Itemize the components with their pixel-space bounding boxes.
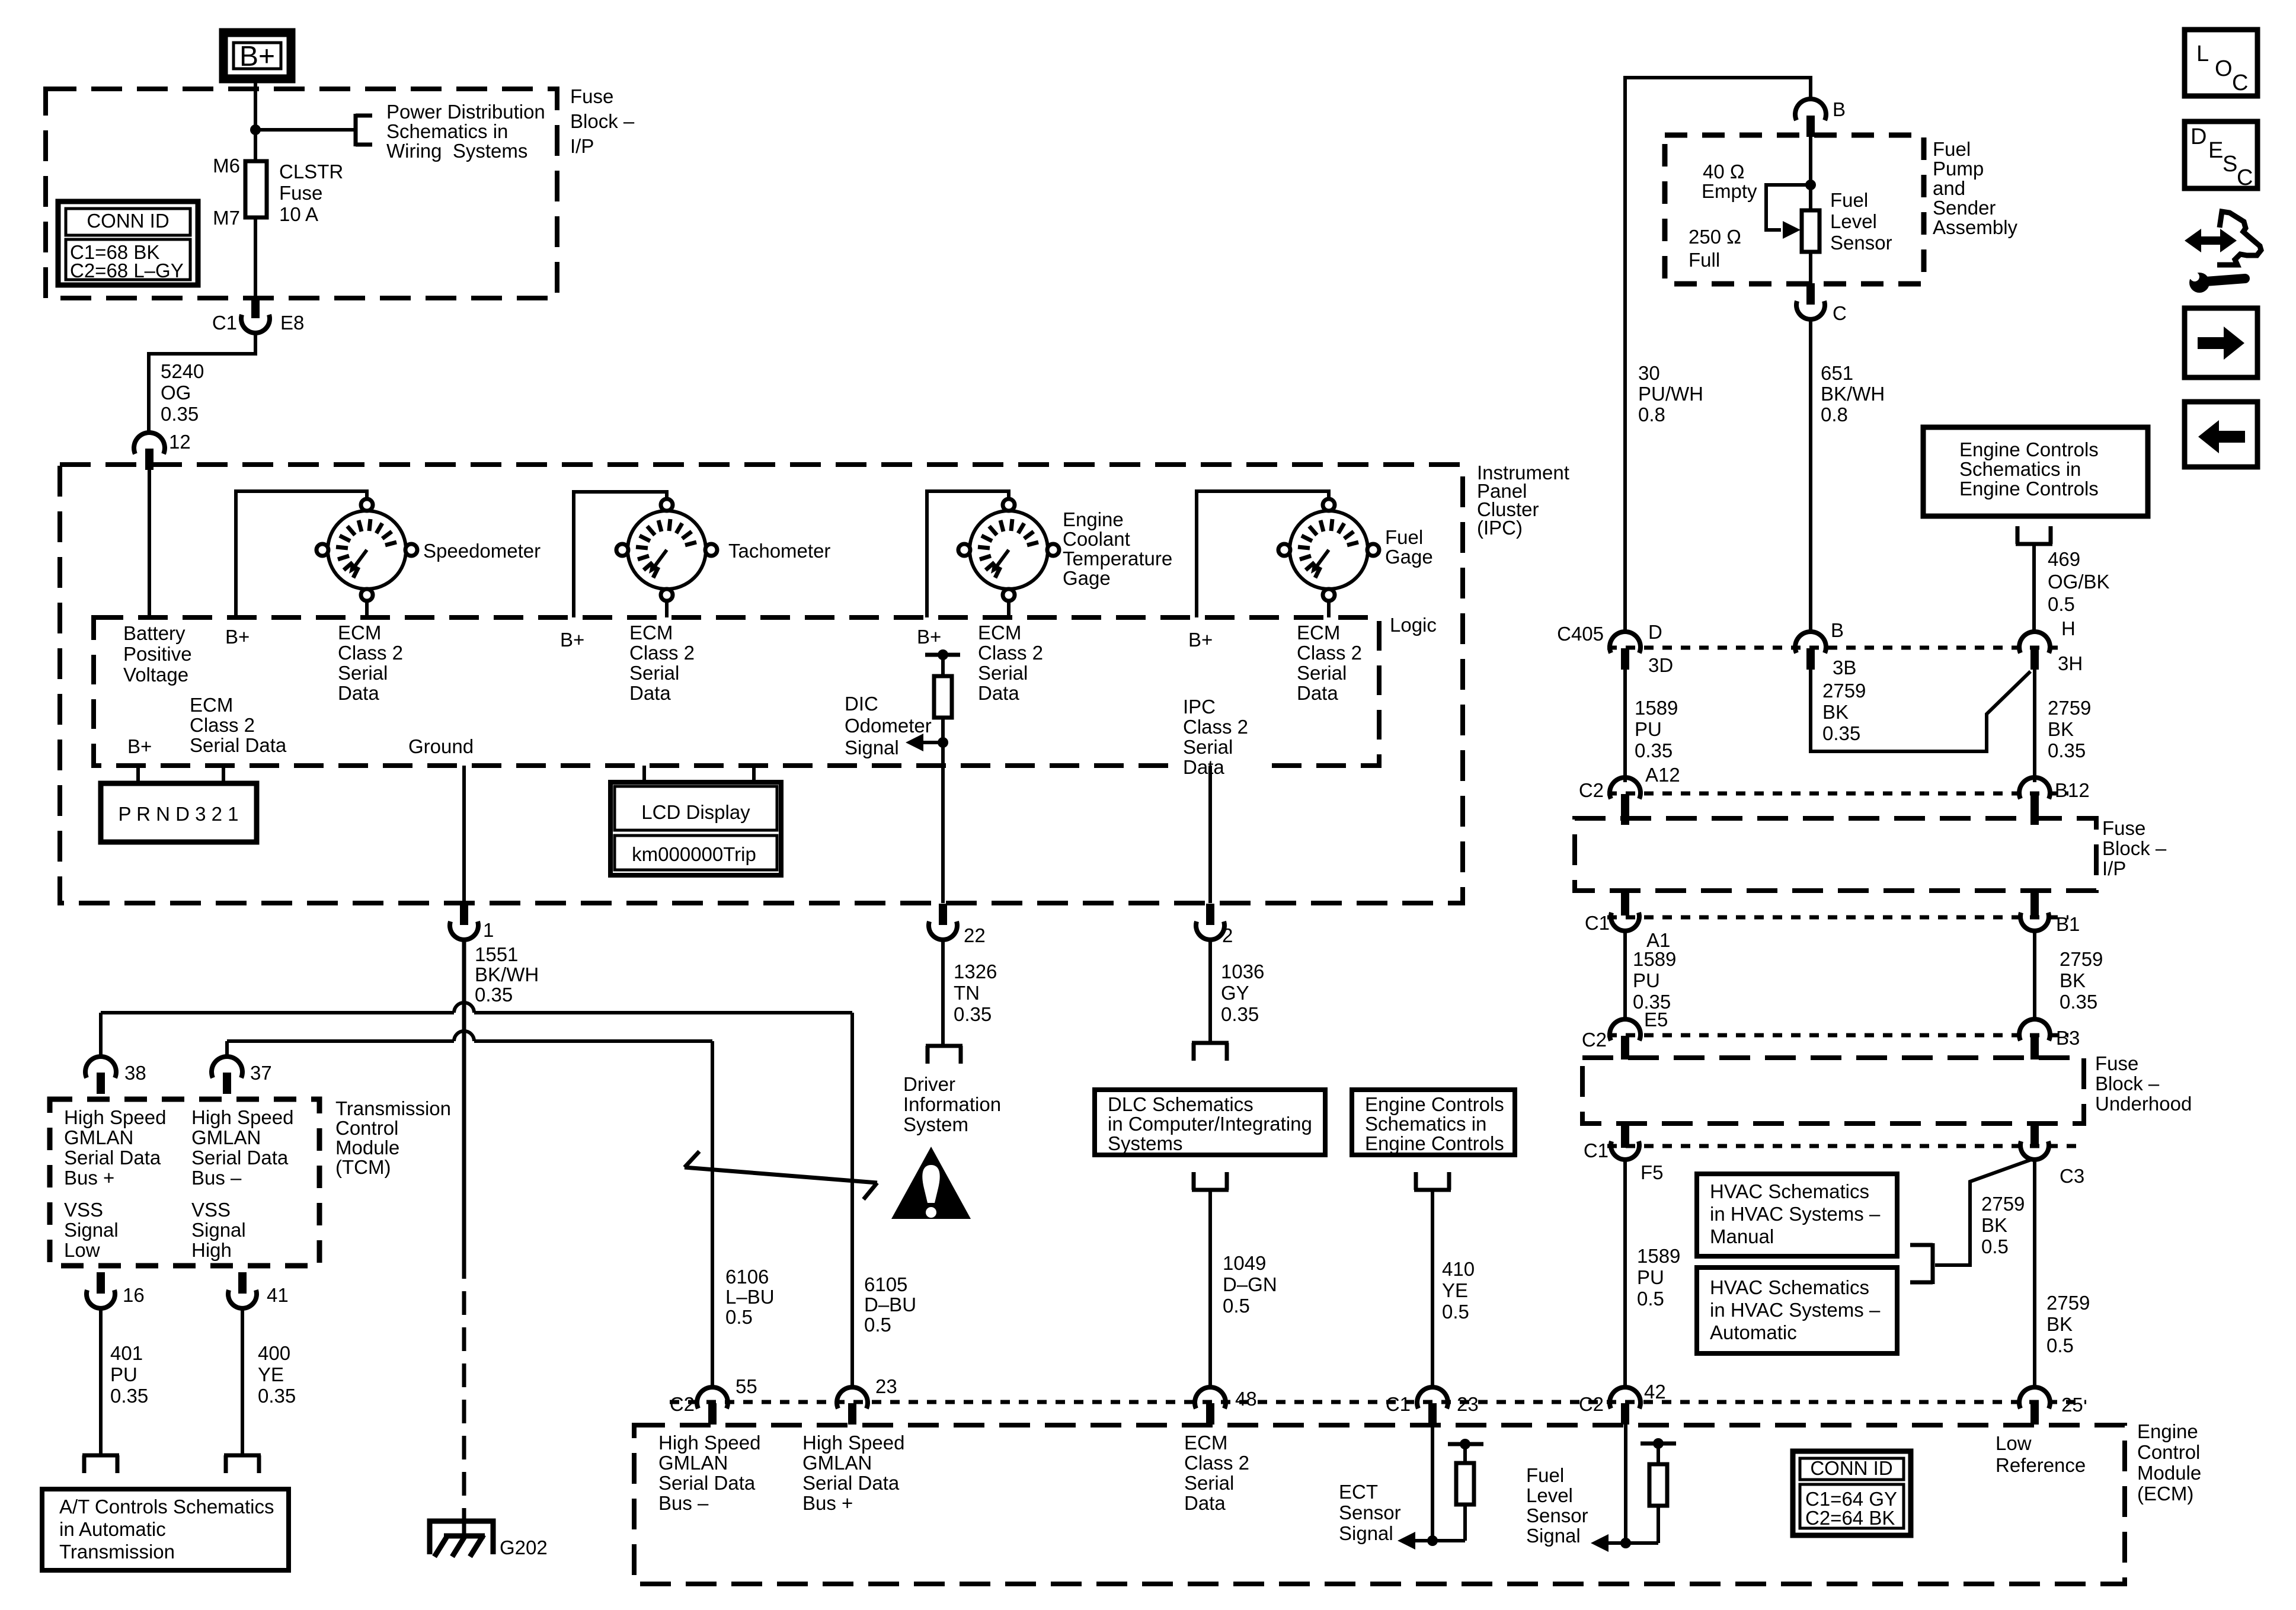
svg-text:Wiring Systems: Wiring Systems <box>386 140 527 162</box>
svg-text:ECM: ECM <box>190 694 233 716</box>
svg-text:Sensor: Sensor <box>1339 1502 1401 1523</box>
label ECM class2 tachometer <box>629 622 695 704</box>
label fuse block IP right <box>2102 817 2167 879</box>
svg-text:2759: 2759 <box>1981 1193 2025 1215</box>
svg-text:400: 400 <box>258 1342 290 1364</box>
pointer line <box>685 1151 877 1199</box>
svg-text:10 A: 10 A <box>279 203 318 225</box>
label B+ coolant <box>917 626 941 648</box>
svg-text:41: 41 <box>267 1284 289 1306</box>
label DIC odometer signal <box>845 693 932 758</box>
svg-text:VSS: VSS <box>64 1199 103 1221</box>
svg-text:30: 30 <box>1638 362 1660 384</box>
svg-text:651: 651 <box>1821 362 1853 384</box>
connector 25 <box>2019 1387 2083 1425</box>
svg-text:B12: B12 <box>2055 779 2090 801</box>
svg-text:OG: OG <box>161 382 191 404</box>
svg-text:2759: 2759 <box>2060 948 2103 970</box>
svg-text:C: C <box>2237 165 2253 190</box>
label TCM <box>335 1097 451 1178</box>
svg-text:Fuel: Fuel <box>1385 526 1423 548</box>
svg-text:Level: Level <box>1526 1484 1573 1506</box>
wire 30 PU/WH top <box>1625 78 1811 633</box>
svg-text:VSS: VSS <box>191 1199 231 1221</box>
svg-text:Temperature: Temperature <box>1063 548 1172 569</box>
svg-text:6106: 6106 <box>725 1266 769 1288</box>
svg-text:PU: PU <box>110 1363 137 1385</box>
svg-text:Serial Data: Serial Data <box>190 734 287 756</box>
fuse CLSTR 10A <box>213 155 343 229</box>
label B+ prnd <box>127 735 152 757</box>
svg-text:Engine Controls: Engine Controls <box>1365 1132 1504 1154</box>
wire 6106 L-BU <box>711 1041 714 1388</box>
svg-text:0.5: 0.5 <box>1637 1288 1664 1310</box>
ground G202 <box>430 1517 548 1558</box>
connector row A12 B12 <box>1579 764 2090 801</box>
connector C2 E5 <box>1610 1019 1641 1060</box>
connector row C405 <box>1557 617 2076 648</box>
svg-text:Low: Low <box>64 1239 100 1261</box>
svg-text:Serial Data: Serial Data <box>64 1147 161 1169</box>
connector C405 H <box>2019 632 2083 674</box>
icon arrow left box <box>2185 402 2257 467</box>
svg-text:CONN ID: CONN ID <box>1810 1457 1892 1479</box>
wire 2759 BK B1 to B3 <box>2033 932 2036 1020</box>
svg-text:1589: 1589 <box>1637 1245 1680 1267</box>
svg-text:0.35: 0.35 <box>1221 1003 1259 1025</box>
label low reference <box>1996 1432 2086 1476</box>
svg-text:BK/WH: BK/WH <box>475 964 539 985</box>
svg-text:40 Ω: 40 Ω <box>1703 161 1745 183</box>
svg-text:High Speed: High Speed <box>191 1106 293 1128</box>
label wire 2759 BK 035 mid <box>1822 680 1866 744</box>
PRND321 box <box>101 783 257 842</box>
wire tachometer data <box>665 599 669 617</box>
wire B+ feed speedometer <box>236 491 367 617</box>
connector row C1 A1 B1 <box>1585 912 2080 951</box>
svg-text:IPC: IPC <box>1183 696 1216 718</box>
fuel level internal resistor <box>1626 1438 1676 1543</box>
svg-text:OG/BK: OG/BK <box>2048 571 2110 593</box>
svg-text:Automatic: Automatic <box>1710 1321 1797 1343</box>
connector 41 <box>228 1272 289 1308</box>
fuel pump dashed box <box>1665 135 1924 284</box>
fuel level sensor resistor <box>1802 210 1819 252</box>
svg-text:GMLAN: GMLAN <box>191 1126 261 1148</box>
label wire 410 YE <box>1442 1258 1475 1323</box>
svg-text:Full: Full <box>1689 249 1720 271</box>
connector 37 <box>212 1057 272 1094</box>
connector 22 wire <box>941 901 945 905</box>
svg-text:Engine: Engine <box>1063 508 1124 530</box>
connector B3 <box>2019 1019 2050 1060</box>
bracket power distribution <box>356 114 372 146</box>
svg-text:O: O <box>2215 56 2233 81</box>
connector B fuel pump <box>1795 98 1846 137</box>
svg-text:ECM: ECM <box>338 622 381 644</box>
svg-text:Data: Data <box>1184 1492 1226 1514</box>
svg-text:in Automatic: in Automatic <box>59 1518 166 1540</box>
svg-text:Signal: Signal <box>1339 1522 1393 1544</box>
label wire 2759 BK 035 b <box>2060 948 2103 1013</box>
svg-text:PU: PU <box>1637 1266 1664 1288</box>
label engine control module <box>2137 1420 2201 1505</box>
wire speedometer data <box>365 599 369 617</box>
label wire 651 BK/WH <box>1821 362 1885 425</box>
label tachometer <box>728 540 830 562</box>
ground wire dashed section <box>462 1255 466 1517</box>
svg-text:Data: Data <box>1183 756 1224 778</box>
wire 2759 BK HVAC branch <box>1935 1159 2033 1265</box>
label fuse block I/P <box>570 85 635 157</box>
label high speed gmlan bus plus <box>64 1106 166 1189</box>
svg-text:Speedometer: Speedometer <box>423 540 541 562</box>
svg-text:0.5: 0.5 <box>1981 1235 2009 1257</box>
connector row F5 C3 <box>1584 1140 2084 1187</box>
svg-text:0.35: 0.35 <box>2060 991 2097 1013</box>
label wire 2759 BK 05 right <box>2046 1292 2090 1356</box>
svg-text:ECM: ECM <box>629 622 673 644</box>
svg-text:Sensor: Sensor <box>1526 1505 1588 1526</box>
svg-text:Positive: Positive <box>123 643 192 665</box>
svg-text:E8: E8 <box>280 312 304 334</box>
svg-text:Schematics in: Schematics in <box>386 120 508 142</box>
svg-text:and: and <box>1933 177 1965 199</box>
connector C3 <box>2020 1124 2049 1160</box>
wire coolant gauge data <box>1007 599 1011 617</box>
label wire 30 PU/WH <box>1638 362 1703 425</box>
label wire 5240 OG 0.35 <box>161 360 204 425</box>
wire fuel level sensor top <box>1809 137 1812 210</box>
svg-text:Underhood: Underhood <box>2095 1093 2192 1115</box>
icon DESC box <box>2185 121 2257 190</box>
warning triangle <box>891 1147 971 1219</box>
svg-text:Sensor: Sensor <box>1830 232 1892 254</box>
svg-text:Serial: Serial <box>629 662 679 684</box>
svg-text:Serial: Serial <box>1183 736 1233 758</box>
svg-text:Bus –: Bus – <box>658 1492 709 1514</box>
svg-text:L: L <box>2196 41 2209 66</box>
label wire 2759 BK 035 right <box>2048 697 2091 761</box>
label ground <box>408 735 474 757</box>
svg-text:High Speed: High Speed <box>64 1106 166 1128</box>
gauge speedometer <box>316 499 417 601</box>
IPC dashed box <box>60 465 1463 903</box>
svg-text:1589: 1589 <box>1635 697 1678 719</box>
svg-text:km000000Trip: km000000Trip <box>632 843 756 865</box>
svg-text:in HVAC Systems –: in HVAC Systems – <box>1710 1203 1881 1225</box>
svg-text:B+: B+ <box>225 626 250 648</box>
svg-text:Signal: Signal <box>64 1219 119 1241</box>
svg-text:BK: BK <box>1822 701 1849 723</box>
wire 6105 D-BU <box>850 1013 854 1388</box>
svg-text:0.35: 0.35 <box>475 984 513 1006</box>
svg-text:410: 410 <box>1442 1258 1475 1280</box>
label speedometer <box>423 540 541 562</box>
label wire 1326 TN <box>954 961 997 1025</box>
svg-text:B+: B+ <box>917 626 941 648</box>
wire 401 PU <box>99 1309 103 1455</box>
label ECT sensor signal <box>1339 1481 1401 1544</box>
LCD display box <box>610 782 781 875</box>
wire stubs LCD <box>644 766 754 784</box>
svg-text:Class 2: Class 2 <box>190 714 255 736</box>
wire 2759 BK to 25 <box>2033 1160 2036 1388</box>
svg-text:C2=64 BK: C2=64 BK <box>1805 1507 1895 1529</box>
svg-text:0.35: 0.35 <box>258 1385 296 1407</box>
HVAC automatic box <box>1697 1267 1897 1353</box>
bracket engine controls bottom <box>1414 1172 1451 1190</box>
svg-text:GMLAN: GMLAN <box>658 1452 728 1474</box>
svg-text:Class 2: Class 2 <box>629 642 695 664</box>
svg-text:Class 2: Class 2 <box>1184 1452 1249 1474</box>
ECT sensor wire <box>1431 1423 1434 1541</box>
icon wrench <box>2185 212 2261 293</box>
wire 651 BK/WH <box>1809 320 1812 633</box>
label ECM class2 fuel <box>1297 622 1362 704</box>
svg-text:Driver: Driver <box>903 1073 955 1095</box>
svg-text:P R N D 3 2 1: P R N D 3 2 1 <box>119 803 239 825</box>
svg-text:1036: 1036 <box>1221 961 1264 982</box>
svg-text:Power Distribution: Power Distribution <box>386 101 545 123</box>
label ECM class2 serial data <box>1184 1432 1249 1514</box>
svg-text:LCD Display: LCD Display <box>641 801 750 823</box>
svg-text:Engine Controls: Engine Controls <box>1365 1093 1504 1115</box>
connector row E5 B3 <box>1582 1009 2080 1051</box>
svg-text:(IPC): (IPC) <box>1477 517 1523 539</box>
ground wire in IPC <box>462 766 466 903</box>
label wire 1036 GY <box>1221 961 1264 1025</box>
svg-text:0.35: 0.35 <box>161 403 199 425</box>
svg-text:Module: Module <box>2137 1462 2201 1484</box>
svg-text:Block –: Block – <box>2095 1073 2160 1094</box>
svg-text:1589: 1589 <box>1633 948 1676 970</box>
svg-text:Transmission: Transmission <box>59 1541 175 1563</box>
svg-text:Empty: Empty <box>1702 180 1757 202</box>
svg-text:Control: Control <box>2137 1441 2200 1463</box>
DIC signal arrow <box>906 734 948 751</box>
svg-text:Battery: Battery <box>123 622 186 644</box>
svg-text:Signal: Signal <box>845 737 899 758</box>
label IPC class2 <box>1176 696 1259 778</box>
svg-text:25: 25 <box>2061 1394 2083 1416</box>
svg-text:Fuel: Fuel <box>1933 138 1971 160</box>
svg-text:C: C <box>2232 71 2248 95</box>
svg-text:3D: 3D <box>1648 654 1673 676</box>
svg-text:42: 42 <box>1644 1381 1666 1403</box>
svg-text:B+: B+ <box>127 735 152 757</box>
svg-text:PU/WH: PU/WH <box>1638 383 1703 405</box>
svg-text:Assembly: Assembly <box>1933 216 2018 238</box>
svg-text:B+: B+ <box>239 41 275 72</box>
bracket engine controls top box <box>2016 526 2052 544</box>
svg-text:GY: GY <box>1221 982 1249 1004</box>
svg-text:0.35: 0.35 <box>1822 722 1860 744</box>
connector C1 A1 <box>1611 891 1639 931</box>
svg-text:0.5: 0.5 <box>2046 1334 2074 1356</box>
svg-text:Tachometer: Tachometer <box>728 540 830 562</box>
svg-text:Pump: Pump <box>1933 158 1984 180</box>
svg-text:YE: YE <box>1442 1279 1468 1301</box>
svg-text:BK/WH: BK/WH <box>1821 383 1885 405</box>
connector C fuel pump <box>1796 283 1847 324</box>
svg-text:Engine Controls: Engine Controls <box>1959 478 2099 500</box>
svg-text:16: 16 <box>123 1284 145 1306</box>
svg-text:469: 469 <box>2048 548 2080 570</box>
svg-text:Fuse: Fuse <box>2102 817 2145 839</box>
connector C1 23 <box>1386 1387 1479 1425</box>
svg-text:B: B <box>1831 619 1844 641</box>
svg-text:Class 2: Class 2 <box>978 642 1043 664</box>
svg-text:HVAC Schematics: HVAC Schematics <box>1710 1180 1869 1202</box>
svg-text:0.5: 0.5 <box>725 1306 753 1328</box>
junction node <box>250 124 261 135</box>
svg-text:Block –: Block – <box>2102 837 2167 859</box>
svg-text:PU: PU <box>1633 969 1660 991</box>
svg-text:D–BU: D–BU <box>864 1294 916 1315</box>
svg-text:0.5: 0.5 <box>1442 1301 1469 1323</box>
svg-text:401: 401 <box>110 1342 143 1364</box>
A/T controls box <box>42 1489 289 1570</box>
svg-text:Odometer: Odometer <box>845 715 932 737</box>
wire 2 from logic box <box>1208 766 1212 903</box>
svg-text:0.35: 0.35 <box>1635 740 1673 761</box>
svg-text:2: 2 <box>1222 924 1233 946</box>
svg-text:in Computer/Integrating: in Computer/Integrating <box>1108 1113 1312 1135</box>
wire 2 to DLC bracket <box>1208 940 1212 1043</box>
svg-text:0.35: 0.35 <box>110 1385 148 1407</box>
svg-text:C405: C405 <box>1557 623 1604 645</box>
bracket HVAC <box>1910 1243 1933 1284</box>
wire stubs PRND321 <box>138 766 223 785</box>
fuse block I/P dashed box <box>46 89 557 298</box>
ECT internal resistor <box>1432 1439 1483 1541</box>
wire fuel level sensor bottom <box>1809 252 1812 283</box>
svg-text:C2: C2 <box>1579 779 1604 801</box>
svg-text:BK: BK <box>2048 718 2074 740</box>
svg-text:DLC Schematics: DLC Schematics <box>1108 1093 1253 1115</box>
label wire 400 YE <box>258 1342 296 1407</box>
svg-text:Data: Data <box>629 682 671 704</box>
wire B+ feed coolant gauge <box>927 491 1009 617</box>
wire 5240 <box>149 334 255 433</box>
wire 1589 PU to 42 <box>1623 1160 1627 1388</box>
label ECM class2 coolant <box>978 622 1043 704</box>
svg-text:Bus +: Bus + <box>802 1492 853 1514</box>
svg-text:(TCM): (TCM) <box>335 1156 391 1178</box>
svg-text:HVAC Schematics: HVAC Schematics <box>1710 1276 1869 1298</box>
svg-text:D: D <box>2191 124 2207 149</box>
connector 23 gmlan <box>837 1375 897 1425</box>
wire 410 YE <box>1431 1190 1434 1388</box>
svg-text:Reference: Reference <box>1996 1454 2086 1476</box>
connector C2 42 <box>1579 1381 1666 1425</box>
DIC odometer resistor circuit <box>925 649 960 903</box>
svg-text:0.8: 0.8 <box>1638 404 1665 425</box>
label wire 6106 L-BU <box>725 1266 775 1328</box>
connector C2 A12 <box>1610 777 1641 825</box>
connector 2 <box>1196 904 1233 946</box>
label 250 ohm full <box>1689 226 1741 271</box>
wire GMLAN bus minus branch <box>227 1031 712 1057</box>
svg-text:GMLAN: GMLAN <box>64 1126 133 1148</box>
svg-text:55: 55 <box>736 1375 757 1397</box>
svg-text:Schematics in: Schematics in <box>1959 458 2081 480</box>
svg-text:YE: YE <box>258 1363 284 1385</box>
logic inner dashed box <box>94 617 1379 766</box>
fuel level sensor wire <box>1624 1423 1627 1543</box>
label B+ speedometer <box>225 626 250 648</box>
bracket DLC bottom <box>1192 1172 1229 1190</box>
CONN ID box fuse block <box>58 201 198 285</box>
svg-text:Serial Data: Serial Data <box>802 1472 900 1494</box>
svg-text:0.8: 0.8 <box>1821 404 1848 425</box>
svg-text:C2=68 L–GY: C2=68 L–GY <box>70 260 184 281</box>
svg-text:Fuse: Fuse <box>279 182 322 204</box>
label wire 2759 BK 05 branch <box>1981 1193 2025 1257</box>
svg-text:Class 2: Class 2 <box>1183 716 1248 738</box>
fuel level sensor wiper <box>1766 185 1811 239</box>
svg-text:2759: 2759 <box>1822 680 1866 702</box>
svg-text:B3: B3 <box>2056 1027 2080 1049</box>
svg-text:Gage: Gage <box>1063 567 1111 589</box>
label VSS signal high <box>191 1199 246 1261</box>
svg-text:Fuse: Fuse <box>570 85 613 107</box>
bracket DLC top <box>1192 1043 1229 1061</box>
svg-text:Information: Information <box>903 1093 1001 1115</box>
svg-text:Bus +: Bus + <box>64 1167 114 1189</box>
connector 48 <box>1195 1387 1257 1425</box>
label high speed gmlan bus minus <box>191 1106 293 1189</box>
gauge fuel gage <box>1278 499 1379 601</box>
label ECM class2 serial data prnd <box>190 694 287 756</box>
svg-text:C1: C1 <box>1585 912 1610 934</box>
svg-text:S: S <box>2223 152 2237 177</box>
svg-text:Schematics in: Schematics in <box>1365 1113 1486 1135</box>
connector 12 into IPC <box>134 431 191 470</box>
svg-text:Engine Controls: Engine Controls <box>1959 438 2099 460</box>
svg-text:1049: 1049 <box>1223 1252 1266 1274</box>
label B+ tachometer <box>560 629 584 651</box>
fuel level sensor junction <box>1805 180 1816 190</box>
svg-text:1: 1 <box>483 919 494 941</box>
svg-text:Data: Data <box>338 682 379 704</box>
svg-text:ECM: ECM <box>1297 622 1340 644</box>
svg-text:Serial: Serial <box>338 662 388 684</box>
svg-text:23: 23 <box>875 1375 897 1397</box>
svg-text:F5: F5 <box>1641 1161 1664 1183</box>
svg-text:0.5: 0.5 <box>2048 593 2075 615</box>
label wire 1589 PU 035 a <box>1635 697 1678 761</box>
icon arrow right box <box>2185 308 2257 377</box>
label power distribution <box>386 101 545 162</box>
svg-text:C3: C3 <box>2060 1165 2084 1187</box>
connector C2 55 <box>670 1375 757 1425</box>
wire B+ feed fuel gage <box>1197 491 1329 617</box>
DLC schematics box <box>1095 1090 1325 1155</box>
svg-text:250 Ω: 250 Ω <box>1689 226 1741 248</box>
wire 2759 BK zigzag <box>1811 670 2030 751</box>
svg-text:C1: C1 <box>212 312 237 334</box>
svg-text:E: E <box>2208 138 2223 163</box>
svg-text:Low: Low <box>1996 1432 2032 1454</box>
svg-text:DIC: DIC <box>845 693 878 715</box>
svg-text:Control: Control <box>335 1117 398 1139</box>
label wire 469 OG/BK <box>2048 548 2110 615</box>
label fuel level sensor <box>1830 189 1892 254</box>
svg-text:Fuel: Fuel <box>1830 189 1868 211</box>
svg-text:C1: C1 <box>1584 1140 1609 1161</box>
